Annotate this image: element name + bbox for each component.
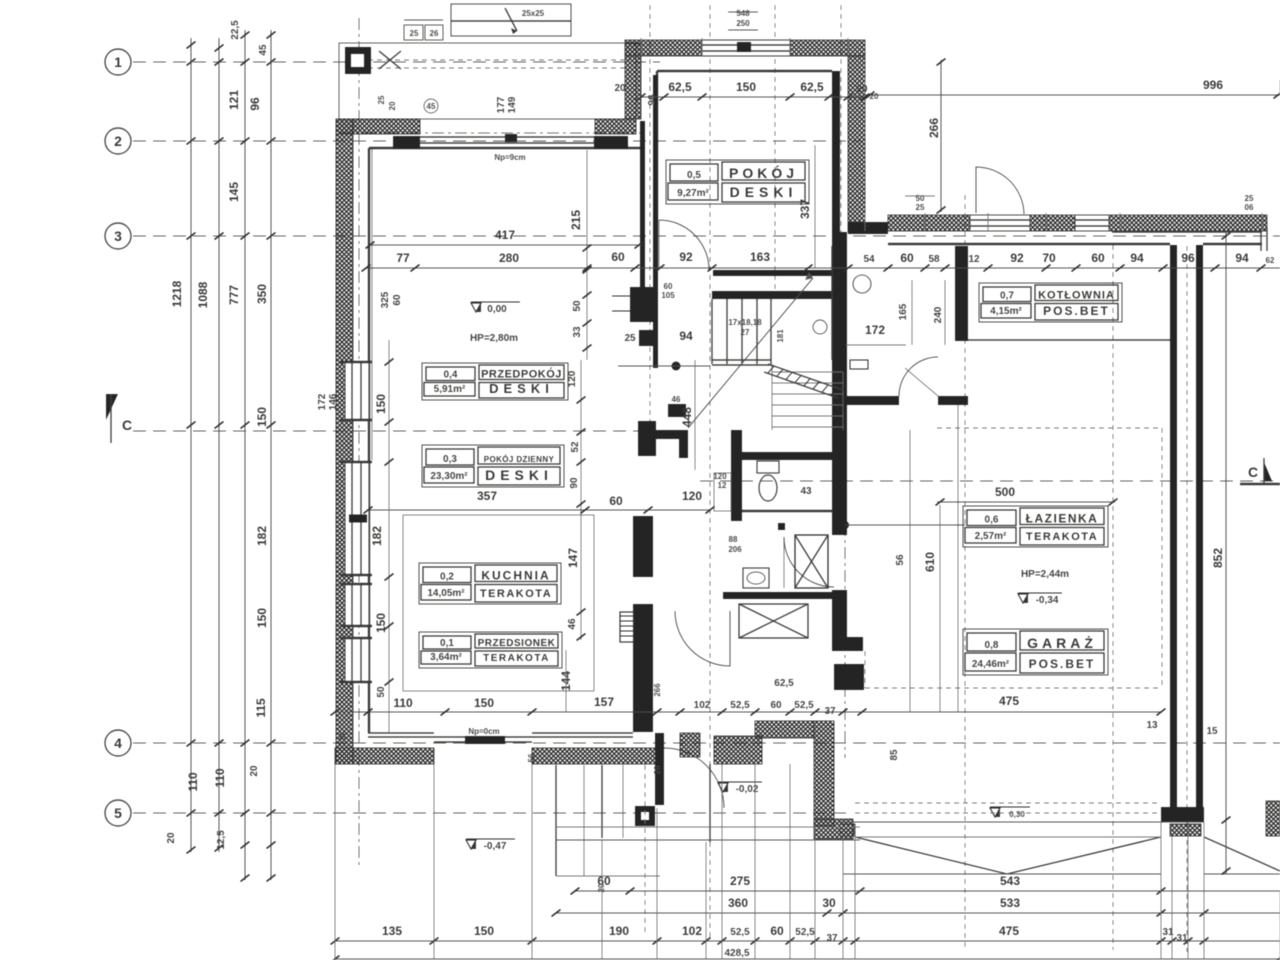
svg-text:30: 30: [822, 896, 836, 910]
svg-text:POS.BET: POS.BET: [1043, 304, 1110, 318]
svg-text:0,7: 0,7: [1000, 291, 1014, 302]
svg-text:448: 448: [680, 407, 694, 427]
svg-text:25: 25: [916, 203, 925, 212]
svg-text:325: 325: [380, 291, 391, 308]
svg-text:54: 54: [863, 254, 875, 265]
svg-text:46: 46: [672, 395, 681, 404]
svg-text:88: 88: [729, 535, 738, 544]
svg-text:20: 20: [614, 83, 626, 94]
svg-text:3,64m²: 3,64m²: [430, 652, 462, 663]
svg-text:15: 15: [1206, 726, 1218, 737]
svg-text:0,00: 0,00: [487, 304, 507, 315]
svg-text:150: 150: [374, 613, 388, 633]
svg-text:110: 110: [393, 696, 413, 710]
svg-text:145: 145: [227, 182, 241, 202]
svg-text:357: 357: [477, 489, 497, 503]
svg-text:GARAŻ: GARAŻ: [1027, 635, 1097, 651]
svg-text:163: 163: [750, 250, 770, 264]
svg-text:25: 25: [624, 333, 636, 344]
svg-text:25: 25: [377, 95, 386, 104]
svg-text:0,2: 0,2: [440, 572, 454, 583]
svg-text:94: 94: [679, 329, 693, 343]
svg-text:240: 240: [933, 306, 944, 323]
svg-text:13: 13: [1146, 720, 1158, 731]
svg-text:17x18,18: 17x18,18: [728, 318, 762, 327]
svg-text:2,57m²: 2,57m²: [975, 531, 1007, 542]
svg-text:150: 150: [736, 80, 756, 94]
svg-text:14,05m²: 14,05m²: [427, 588, 465, 599]
svg-text:12,5: 12,5: [216, 830, 227, 850]
svg-text:1218: 1218: [170, 280, 184, 307]
svg-text:60: 60: [900, 251, 914, 265]
svg-text:31: 31: [1176, 933, 1188, 944]
svg-text:20: 20: [338, 732, 347, 741]
svg-text:58: 58: [928, 254, 940, 265]
svg-text:24,46m²: 24,46m²: [972, 659, 1010, 670]
svg-text:25: 25: [410, 29, 419, 38]
svg-text:DESKI: DESKI: [489, 381, 554, 396]
svg-text:60: 60: [664, 282, 673, 291]
svg-text:428,5: 428,5: [724, 948, 749, 959]
svg-text:22,5: 22,5: [230, 20, 241, 40]
svg-text:533: 533: [1000, 896, 1020, 910]
svg-text:0,1: 0,1: [440, 638, 454, 649]
svg-text:115: 115: [254, 698, 268, 718]
svg-text:Np=9cm: Np=9cm: [494, 153, 525, 162]
svg-text:PRZEDSIONEK: PRZEDSIONEK: [478, 638, 556, 649]
svg-text:5: 5: [114, 805, 122, 821]
svg-text:852: 852: [1211, 548, 1225, 568]
svg-text:777: 777: [227, 285, 241, 305]
svg-text:135: 135: [382, 924, 402, 938]
svg-text:43: 43: [800, 486, 812, 497]
svg-text:85: 85: [889, 749, 900, 761]
svg-text:181: 181: [776, 329, 785, 343]
svg-text:266: 266: [927, 118, 941, 138]
svg-text:149: 149: [507, 96, 518, 113]
svg-text:20: 20: [597, 883, 606, 892]
svg-text:50: 50: [376, 686, 387, 698]
svg-text:266: 266: [653, 683, 662, 697]
svg-text:20: 20: [856, 84, 868, 95]
svg-text:56: 56: [527, 753, 536, 762]
svg-text:25: 25: [1245, 194, 1254, 203]
svg-text:360: 360: [728, 896, 748, 910]
svg-text:20: 20: [870, 92, 879, 101]
svg-text:150: 150: [474, 924, 494, 938]
svg-text:37: 37: [824, 706, 836, 717]
svg-text:90: 90: [569, 477, 580, 489]
svg-text:0,5: 0,5: [687, 170, 701, 181]
svg-text:20: 20: [388, 101, 397, 110]
svg-text:92: 92: [1010, 251, 1024, 265]
svg-text:102: 102: [682, 924, 702, 938]
svg-text:60: 60: [609, 494, 623, 508]
svg-text:94: 94: [1235, 251, 1249, 265]
svg-text:20: 20: [249, 765, 260, 777]
svg-text:120: 120: [713, 472, 727, 481]
svg-text:146: 146: [328, 393, 339, 410]
svg-text:150: 150: [374, 394, 388, 414]
svg-text:4,15m²: 4,15m²: [990, 306, 1022, 317]
svg-text:275: 275: [730, 874, 750, 888]
svg-text:45: 45: [427, 102, 436, 111]
svg-text:37: 37: [826, 933, 838, 944]
svg-text:TERAKOTA: TERAKOTA: [1026, 531, 1098, 543]
svg-text:HP=2,80m: HP=2,80m: [470, 333, 518, 344]
svg-text:190: 190: [609, 924, 629, 938]
svg-text:996: 996: [1203, 78, 1223, 92]
svg-text:280: 280: [499, 251, 519, 265]
svg-text:POKÓJ DZIENNY: POKÓJ DZIENNY: [484, 455, 555, 464]
svg-text:120: 120: [682, 489, 702, 503]
svg-text:77: 77: [396, 251, 410, 265]
svg-text:5,91m²: 5,91m²: [434, 384, 466, 395]
svg-text:350: 350: [255, 284, 269, 304]
svg-text:0,3: 0,3: [443, 454, 457, 465]
svg-text:12: 12: [718, 481, 727, 490]
svg-text:62,5: 62,5: [800, 80, 824, 94]
svg-text:45: 45: [258, 44, 269, 56]
svg-text:60: 60: [1091, 251, 1105, 265]
svg-text:96: 96: [1181, 251, 1195, 265]
svg-text:1: 1: [114, 54, 122, 70]
svg-text:Np=0cm: Np=0cm: [468, 727, 499, 736]
svg-text:06: 06: [1245, 203, 1254, 212]
svg-text:26: 26: [430, 29, 439, 38]
svg-text:172: 172: [317, 393, 328, 410]
svg-text:52,5: 52,5: [795, 927, 815, 938]
svg-text:52,5: 52,5: [730, 927, 750, 938]
svg-text:250: 250: [736, 19, 750, 28]
svg-text:147: 147: [566, 548, 580, 568]
svg-text:157: 157: [594, 695, 614, 709]
svg-text:52,5: 52,5: [730, 700, 750, 711]
svg-text:172: 172: [865, 323, 885, 337]
svg-text:9,27m²: 9,27m²: [677, 188, 709, 199]
svg-text:417: 417: [495, 228, 515, 242]
svg-text:27: 27: [741, 328, 750, 337]
svg-text:POKÓJ: POKÓJ: [729, 164, 798, 181]
svg-text:110: 110: [186, 772, 200, 792]
svg-text:475: 475: [999, 924, 1019, 938]
svg-text:HP=2,44m: HP=2,44m: [1021, 569, 1069, 580]
svg-text:62: 62: [1266, 256, 1275, 265]
svg-text:337: 337: [798, 199, 812, 219]
svg-text:0,30: 0,30: [1009, 810, 1025, 819]
svg-text:-0,47: -0,47: [484, 841, 507, 852]
svg-text:121: 121: [227, 90, 241, 110]
svg-text:33: 33: [572, 326, 583, 338]
svg-text:52: 52: [570, 441, 581, 453]
svg-text:0,6: 0,6: [985, 515, 999, 526]
svg-text:96: 96: [248, 97, 262, 111]
svg-text:56: 56: [895, 554, 906, 566]
svg-text:102: 102: [694, 700, 711, 711]
svg-text:62,5: 62,5: [774, 678, 794, 689]
svg-text:2: 2: [114, 133, 122, 149]
svg-text:543: 543: [1000, 874, 1020, 888]
svg-text:0,8: 0,8: [985, 640, 999, 651]
svg-text:206: 206: [728, 545, 742, 554]
svg-text:215: 215: [569, 210, 583, 230]
svg-text:20: 20: [653, 765, 662, 774]
svg-text:610: 610: [923, 552, 937, 572]
svg-text:23,30m²: 23,30m²: [430, 471, 468, 482]
svg-text:DESKI: DESKI: [730, 184, 798, 200]
svg-text:70: 70: [1042, 251, 1056, 265]
svg-text:50: 50: [916, 194, 925, 203]
svg-text:C: C: [122, 417, 132, 433]
svg-text:62,5: 62,5: [668, 80, 692, 94]
svg-text:182: 182: [370, 526, 384, 546]
svg-text:105: 105: [661, 291, 675, 300]
svg-text:TERAKOTA: TERAKOTA: [483, 653, 550, 664]
svg-text:50: 50: [572, 300, 583, 312]
svg-text:PRZEDPOKÓJ: PRZEDPOKÓJ: [481, 368, 562, 381]
svg-text:60: 60: [611, 250, 625, 264]
svg-text:ŁAZIENKA: ŁAZIENKA: [1026, 512, 1099, 526]
svg-text:4: 4: [114, 735, 122, 751]
svg-text:0,4: 0,4: [444, 370, 458, 381]
svg-text:60: 60: [770, 924, 784, 938]
svg-text:-0,34: -0,34: [1036, 595, 1059, 606]
svg-text:96: 96: [647, 94, 658, 106]
svg-text:TERAKOTA: TERAKOTA: [480, 588, 552, 600]
svg-text:DESKI: DESKI: [485, 467, 553, 483]
svg-text:500: 500: [995, 485, 1015, 499]
svg-text:177: 177: [496, 96, 507, 113]
svg-text:110: 110: [213, 768, 227, 788]
svg-text:KOTŁOWNIA: KOTŁOWNIA: [1038, 290, 1115, 302]
svg-text:12: 12: [968, 254, 980, 265]
svg-text:60: 60: [392, 294, 403, 306]
svg-text:KUCHNIA: KUCHNIA: [481, 569, 550, 583]
svg-text:475: 475: [999, 694, 1019, 708]
svg-text:94: 94: [1130, 251, 1144, 265]
svg-text:POS.BET: POS.BET: [1029, 657, 1096, 671]
svg-text:52,5: 52,5: [794, 700, 814, 711]
svg-text:92: 92: [679, 250, 693, 264]
svg-text:1088: 1088: [196, 281, 210, 308]
svg-text:60: 60: [770, 700, 782, 711]
svg-text:165: 165: [898, 303, 909, 320]
svg-text:150: 150: [474, 696, 494, 710]
svg-text:C: C: [1248, 464, 1258, 480]
svg-text:548: 548: [736, 9, 750, 18]
svg-text:120: 120: [567, 370, 578, 387]
svg-text:46: 46: [567, 618, 578, 630]
svg-text:25x25: 25x25: [522, 9, 545, 18]
svg-text:3: 3: [114, 228, 122, 244]
svg-text:20: 20: [166, 832, 177, 844]
svg-text:150: 150: [255, 608, 269, 628]
svg-text:150: 150: [255, 407, 269, 427]
svg-text:182: 182: [255, 526, 269, 546]
